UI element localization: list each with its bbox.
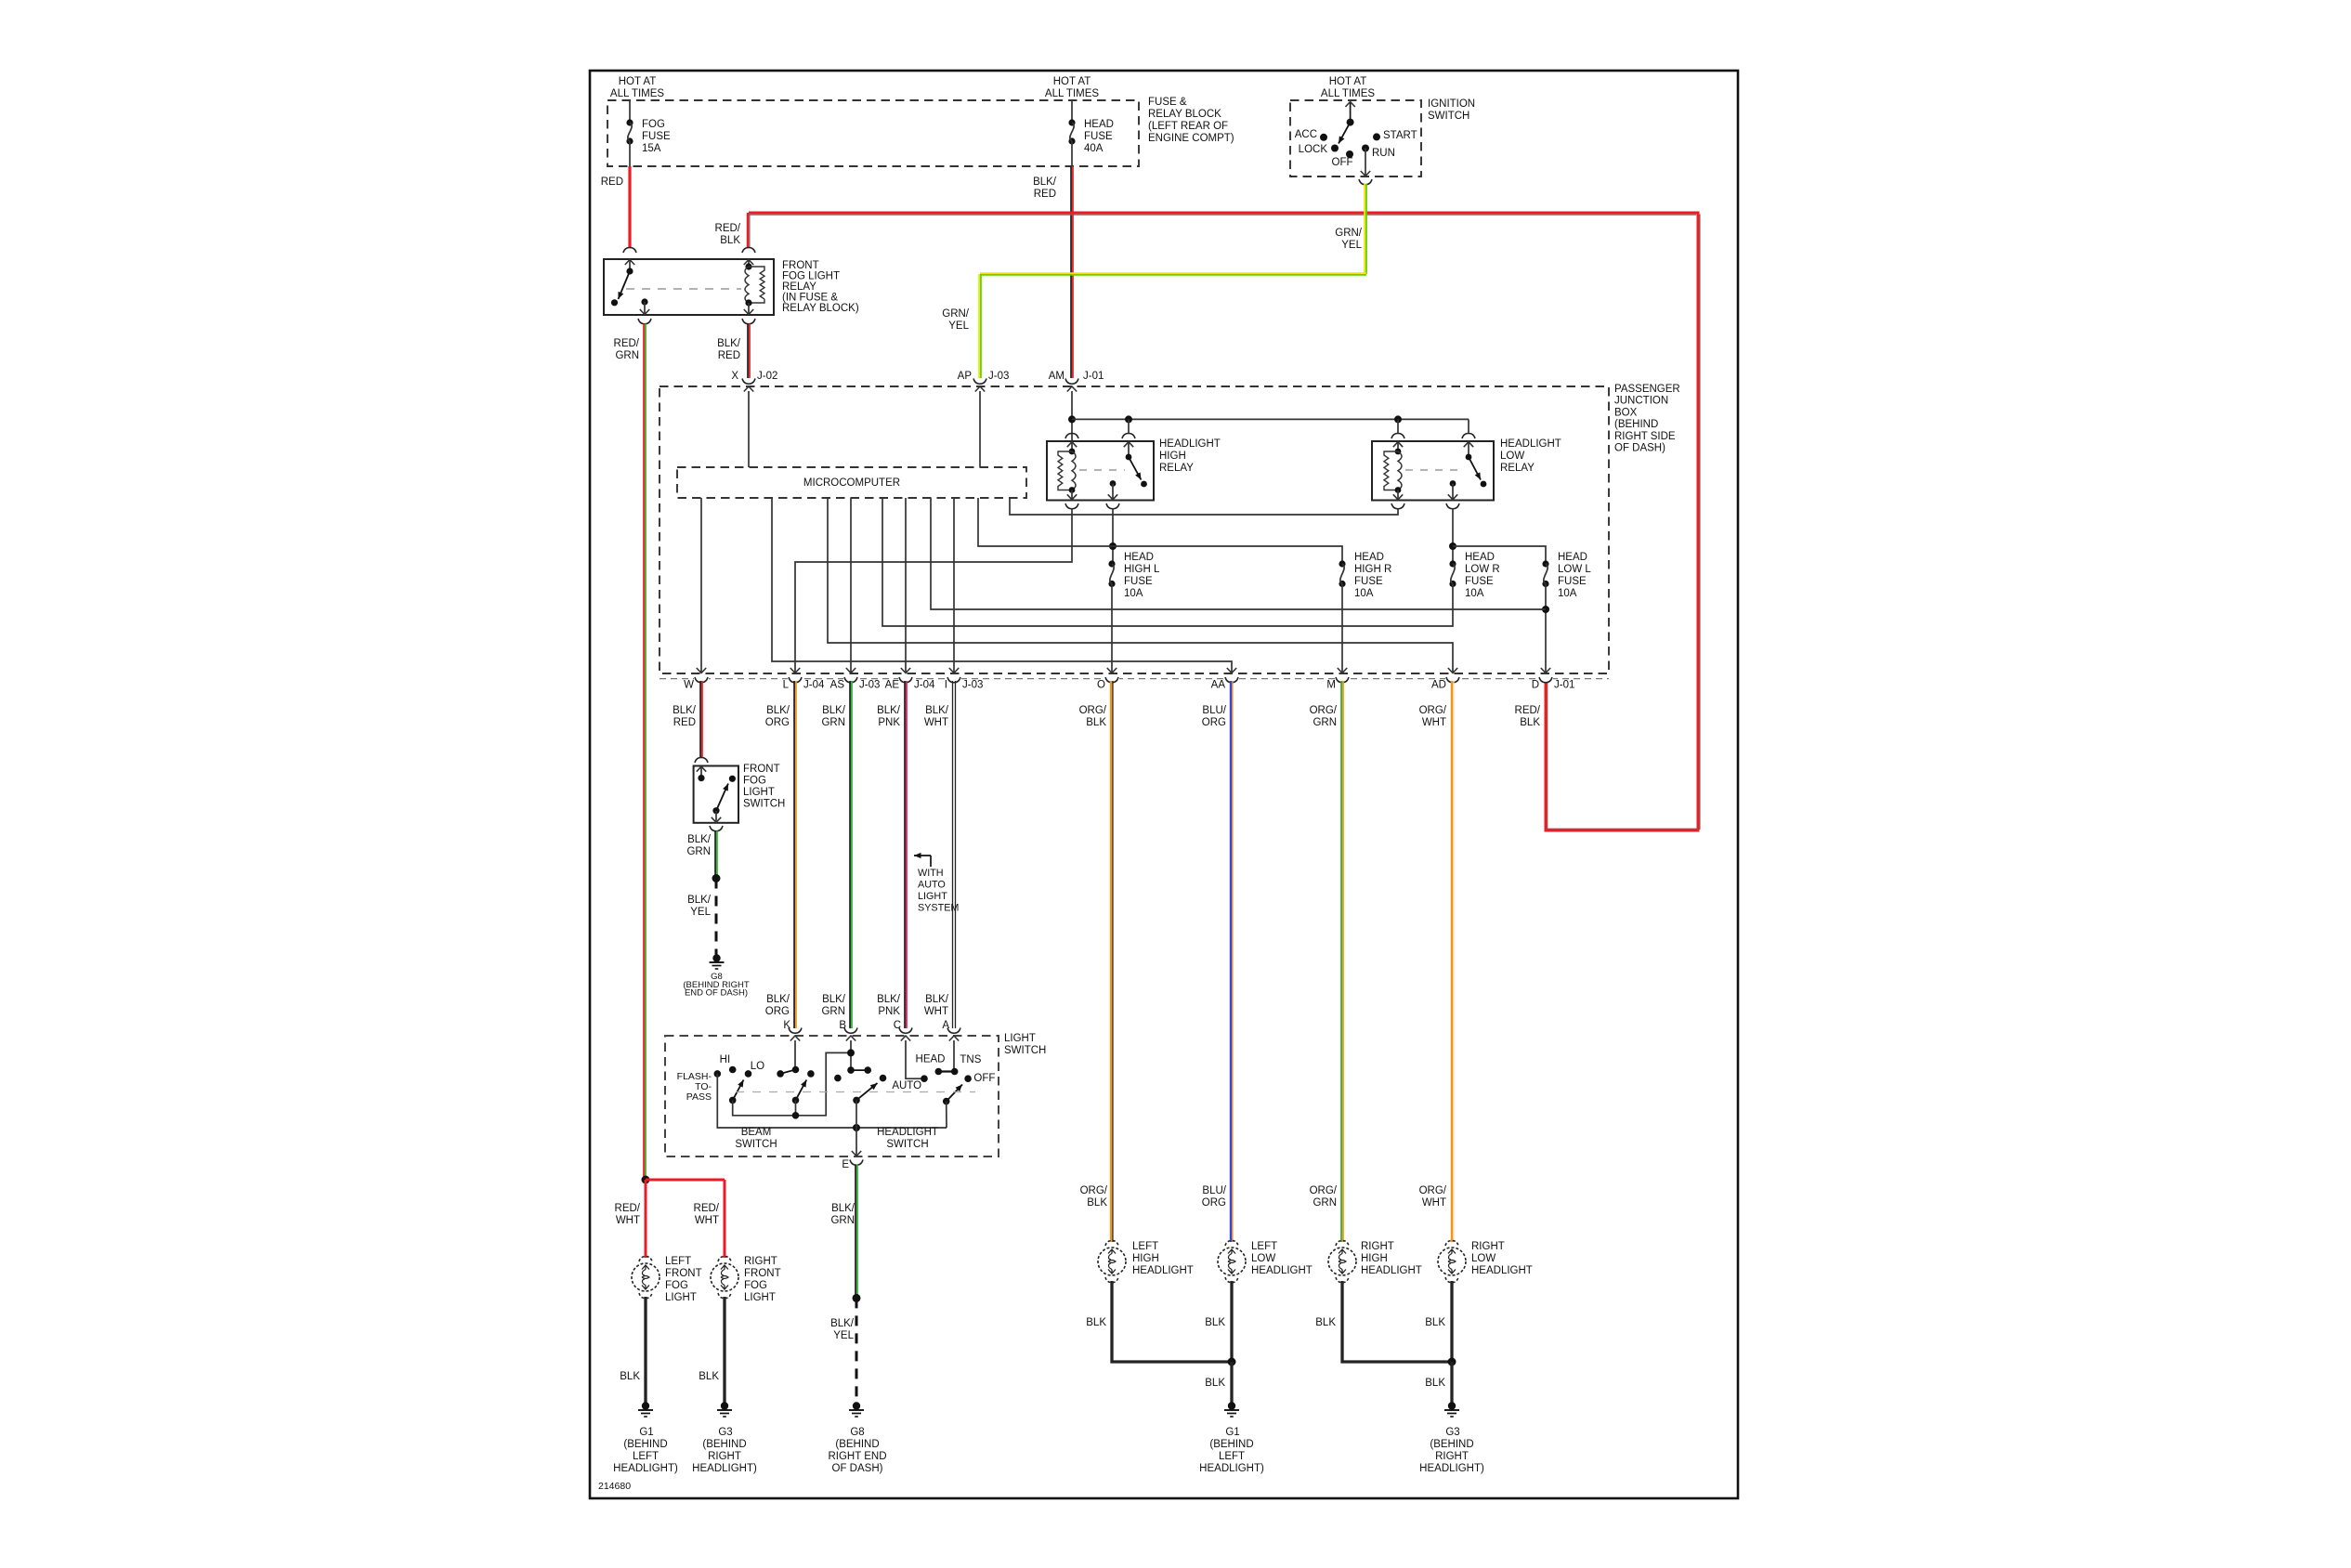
- svg-text:RELAY: RELAY: [1159, 463, 1194, 474]
- svg-text:15A: 15A: [642, 143, 661, 154]
- svg-text:ENGINE COMPT): ENGINE COMPT): [1148, 133, 1234, 144]
- svg-text:HEADLIGHT): HEADLIGHT): [613, 1463, 678, 1474]
- svg-text:214680: 214680: [598, 1481, 631, 1492]
- svg-text:HEAD: HEAD: [1465, 552, 1495, 563]
- wire microcomputer to I: [953, 498, 955, 673]
- svg-text:OFF: OFF: [1332, 157, 1353, 168]
- svg-text:HEADLIGHT: HEADLIGHT: [1132, 1265, 1194, 1276]
- svg-text:ALL TIMES: ALL TIMES: [1045, 88, 1099, 99]
- headlight switch selector 1: [834, 1075, 842, 1082]
- svg-text:BLK/: BLK/: [822, 705, 846, 716]
- svg-text:W: W: [684, 680, 694, 691]
- svg-text:FOG: FOG: [743, 776, 766, 787]
- svg-text:PASS: PASS: [686, 1091, 712, 1103]
- svg-text:40A: 40A: [1084, 143, 1104, 154]
- svg-text:HEADLIGHT): HEADLIGHT): [692, 1463, 757, 1474]
- wire RED/BLK bottom horizontal: [1546, 828, 1698, 830]
- svg-text:10A: 10A: [1465, 588, 1484, 599]
- svg-text:BLK/: BLK/: [925, 705, 949, 716]
- svg-text:RED/: RED/: [1515, 705, 1541, 716]
- svg-text:LOW: LOW: [1471, 1253, 1495, 1264]
- svg-text:HOT AT: HOT AT: [1053, 76, 1091, 87]
- svg-text:ALL TIMES: ALL TIMES: [1321, 88, 1375, 99]
- fog relay switch: [629, 259, 631, 271]
- svg-text:J-01: J-01: [1554, 680, 1574, 691]
- svg-text:BLK: BLK: [720, 235, 740, 246]
- wire BLK/WHT I to A: [952, 681, 954, 1028]
- svg-text:AD: AD: [1431, 680, 1446, 691]
- fuse HEAD LOW L FUSE 10A: [1542, 560, 1548, 567]
- svg-text:RED/: RED/: [615, 1203, 641, 1214]
- svg-text:G1: G1: [1225, 1427, 1239, 1438]
- svg-text:HEADLIGHT): HEADLIGHT): [1419, 1463, 1484, 1474]
- wire BLK to ground G1: [1230, 1362, 1233, 1406]
- pin C: [899, 1028, 912, 1034]
- switch LIGHT SWITCH (dashed box): [665, 1036, 999, 1156]
- svg-text:ORG: ORG: [1202, 717, 1226, 728]
- svg-text:LOCK: LOCK: [1299, 144, 1328, 155]
- svg-text:SWITCH: SWITCH: [743, 799, 785, 810]
- lamp RIGHT FRONT FOG LIGHT: [718, 1257, 731, 1262]
- svg-text:PASSENGER: PASSENGER: [1614, 384, 1680, 395]
- svg-text:BLK: BLK: [1205, 1378, 1225, 1389]
- svg-text:HEAD: HEAD: [1084, 119, 1114, 130]
- svg-text:E: E: [842, 1159, 849, 1170]
- svg-text:BLK/: BLK/: [1033, 176, 1057, 188]
- svg-text:HEAD: HEAD: [916, 1053, 946, 1065]
- pin B: [844, 1028, 857, 1034]
- svg-text:HEADLIGHT: HEADLIGHT: [877, 1127, 938, 1138]
- svg-text:HEADLIGHT: HEADLIGHT: [1159, 438, 1221, 450]
- svg-text:BLK/: BLK/: [687, 834, 712, 845]
- svg-text:SWITCH: SWITCH: [1428, 111, 1469, 122]
- fog relay coil: [748, 259, 750, 267]
- svg-text:BLK: BLK: [1086, 717, 1106, 728]
- ground G1 behind left headlight: [642, 1402, 649, 1409]
- svg-text:HEADLIGHT: HEADLIGHT: [1361, 1265, 1422, 1276]
- ground G3 behind right headlight: [721, 1402, 728, 1409]
- svg-text:RED/: RED/: [715, 223, 741, 234]
- svg-text:ORG: ORG: [765, 1006, 790, 1017]
- wire RED/BLK right vertical: [1699, 215, 1701, 830]
- svg-text:FUSE: FUSE: [1084, 131, 1113, 142]
- svg-text:HIGH: HIGH: [1132, 1253, 1159, 1264]
- svg-text:G3: G3: [1445, 1427, 1459, 1438]
- svg-text:BLK: BLK: [1086, 1317, 1106, 1328]
- fuse FOG FUSE 15A: [629, 100, 631, 123]
- svg-text:BLK: BLK: [1520, 717, 1540, 728]
- fog relay mechanical link: [626, 288, 741, 290]
- ignition switch internals: [1350, 102, 1352, 123]
- wire BLK/PNK AE to C: [904, 681, 906, 1028]
- svg-text:J-04: J-04: [914, 680, 935, 691]
- relay HEADLIGHT HIGH RELAY: [1065, 434, 1078, 439]
- svg-text:RIGHT SIDE: RIGHT SIDE: [1614, 431, 1676, 442]
- svg-text:LOW: LOW: [1251, 1253, 1275, 1264]
- pin I J-03: [947, 677, 960, 683]
- svg-text:ORG/: ORG/: [1310, 1185, 1338, 1196]
- svg-text:BLK/: BLK/: [766, 705, 790, 716]
- beam switch selector 2 contacts: [777, 1070, 784, 1078]
- svg-text:RIGHT: RIGHT: [708, 1451, 741, 1462]
- fuse HEAD HIGH L FUSE 10A: [1108, 560, 1115, 567]
- svg-text:FUSE: FUSE: [1124, 576, 1153, 587]
- svg-text:WITH: WITH: [918, 868, 944, 879]
- svg-text:HIGH R: HIGH R: [1354, 564, 1391, 575]
- pin D J-01: [1539, 677, 1552, 683]
- wire BLK/YEL to ground G8 (lower): [856, 1298, 858, 1405]
- svg-text:RED: RED: [601, 176, 623, 188]
- svg-text:10A: 10A: [1558, 588, 1577, 599]
- svg-text:RELAY BLOCK: RELAY BLOCK: [1148, 109, 1221, 120]
- fuse HEAD HIGH R FUSE 10A: [1339, 560, 1345, 567]
- node LOCK: [1331, 145, 1339, 152]
- wire low relay output to head low fuses: [1452, 508, 1454, 564]
- svg-text:ORG: ORG: [1202, 1197, 1226, 1209]
- wire RED/BLK from D connector down: [1547, 681, 1548, 829]
- svg-text:ACC: ACC: [1295, 129, 1317, 140]
- node splice on E wire: [853, 1294, 861, 1302]
- svg-text:IGNITION: IGNITION: [1428, 98, 1475, 110]
- svg-text:AUTO: AUTO: [918, 879, 946, 890]
- svg-text:OF DASH): OF DASH): [1614, 443, 1665, 454]
- light switch mechanical link: [736, 1091, 975, 1093]
- node splice right headlight grounds: [1448, 1358, 1456, 1366]
- svg-text:G1: G1: [639, 1427, 653, 1438]
- svg-text:HOT AT: HOT AT: [619, 76, 656, 87]
- svg-text:J-03: J-03: [962, 680, 983, 691]
- svg-text:LEFT: LEFT: [665, 1256, 691, 1267]
- node splice RED/GRN to fog lights: [642, 1176, 650, 1184]
- wire BLK/GRN E to splice: [855, 1165, 856, 1299]
- svg-text:FOG: FOG: [665, 1280, 688, 1291]
- wire BLK/ORG L to K: [793, 681, 795, 1028]
- svg-text:ALL TIMES: ALL TIMES: [610, 88, 664, 99]
- pin AM J-01: [1065, 379, 1078, 385]
- svg-text:LOW: LOW: [1500, 451, 1524, 462]
- svg-text:BOX: BOX: [1614, 407, 1638, 418]
- svg-text:FUSE: FUSE: [1465, 576, 1494, 587]
- svg-text:LIGHT: LIGHT: [665, 1292, 697, 1303]
- svg-text:BLK: BLK: [1425, 1317, 1445, 1328]
- pin AD: [1446, 677, 1459, 683]
- svg-text:BLK: BLK: [1425, 1378, 1445, 1389]
- svg-text:YEL: YEL: [690, 907, 711, 918]
- wire BLK right high headlight to splice: [1342, 1281, 1452, 1362]
- svg-text:L: L: [783, 680, 790, 691]
- svg-text:OFF: OFF: [973, 1073, 995, 1084]
- wire RED/WHT jumper to right fog light: [646, 1179, 725, 1182]
- svg-text:HIGH: HIGH: [1361, 1253, 1388, 1264]
- svg-text:WHT: WHT: [695, 1215, 719, 1226]
- svg-text:RED: RED: [1034, 189, 1056, 200]
- wire low R fuse to microcomputer: [882, 498, 1453, 626]
- svg-text:ORG: ORG: [765, 717, 790, 728]
- svg-text:YEL: YEL: [1341, 240, 1362, 251]
- pin L J-04: [789, 677, 802, 683]
- svg-text:J-03: J-03: [988, 371, 1009, 382]
- wire microcomputer to AD: [828, 498, 1453, 673]
- svg-text:(BEHIND: (BEHIND: [1209, 1439, 1253, 1450]
- svg-text:AS: AS: [830, 680, 845, 691]
- svg-text:(BEHIND: (BEHIND: [623, 1439, 667, 1450]
- high relay resistor: [1058, 451, 1072, 490]
- wire BLK/GRN AS to B: [849, 681, 851, 1028]
- junction bottom connector gaps: [694, 676, 709, 683]
- wire GRN/YEL from ignition switch to AP: [1364, 184, 1365, 274]
- passenger junction box (dashed): [660, 386, 1609, 673]
- svg-text:BLK/: BLK/: [877, 705, 901, 716]
- low relay resistor: [1384, 451, 1398, 490]
- switch FRONT FOG LIGHT SWITCH: [695, 758, 708, 764]
- node RUN: [1362, 145, 1369, 152]
- svg-text:ORG/: ORG/: [1419, 1185, 1447, 1196]
- svg-text:J-03: J-03: [859, 680, 880, 691]
- svg-text:HEAD: HEAD: [1124, 552, 1154, 563]
- svg-text:BLU/: BLU/: [1202, 705, 1226, 716]
- svg-text:BLK: BLK: [1315, 1317, 1336, 1328]
- wire RED/BLK battery feed (top horizontal): [749, 214, 1696, 216]
- svg-text:MICROCOMPUTER: MICROCOMPUTER: [803, 477, 900, 489]
- svg-text:FUSE: FUSE: [642, 131, 671, 142]
- wire microcomputer to AS: [850, 498, 852, 673]
- wire BLK/YEL to ground G8: [715, 879, 718, 955]
- svg-text:HI: HI: [720, 1054, 731, 1065]
- svg-text:SWITCH: SWITCH: [1004, 1045, 1046, 1056]
- svg-text:AP: AP: [958, 371, 973, 382]
- wire relay supply bus from AM: [1068, 415, 1076, 423]
- ground G8 behind right end of dash (lower): [853, 1402, 860, 1409]
- svg-text:HEADLIGHT: HEADLIGHT: [1251, 1265, 1313, 1276]
- svg-text:(BEHIND: (BEHIND: [1614, 419, 1658, 430]
- wire BLK/RED from head fuse to AM: [1070, 166, 1072, 378]
- svg-text:YEL: YEL: [833, 1330, 854, 1341]
- svg-text:LEFT: LEFT: [1219, 1451, 1245, 1462]
- pin O: [1105, 677, 1118, 683]
- wire microcomputer to AE: [905, 498, 907, 673]
- svg-text:RED/: RED/: [614, 338, 640, 349]
- pin AP J-03: [973, 379, 986, 385]
- svg-text:FOG: FOG: [642, 119, 665, 130]
- svg-text:PNK: PNK: [878, 717, 900, 728]
- note WITH AUTO LIGHT SYSTEM: [914, 855, 931, 856]
- svg-text:RIGHT: RIGHT: [1435, 1451, 1469, 1462]
- svg-text:M: M: [1326, 680, 1336, 691]
- svg-text:O: O: [1097, 680, 1105, 691]
- svg-text:B: B: [839, 1020, 846, 1031]
- wire high relay output to head high fuses: [1112, 508, 1114, 564]
- svg-text:SYSTEM: SYSTEM: [918, 903, 959, 914]
- wire high relay coil return to L: [795, 508, 1072, 673]
- svg-text:FRONT: FRONT: [665, 1268, 702, 1279]
- svg-text:LOW L: LOW L: [1558, 564, 1591, 575]
- svg-text:K: K: [783, 1020, 790, 1031]
- wire RED/BLK drop to fog relay: [747, 213, 750, 247]
- svg-text:RIGHT: RIGHT: [1361, 1241, 1394, 1252]
- svg-text:J-04: J-04: [803, 680, 825, 691]
- svg-text:BEAM: BEAM: [741, 1127, 772, 1138]
- svg-text:10A: 10A: [1124, 588, 1143, 599]
- ground G8 behind right end of dash: [712, 954, 720, 961]
- svg-text:BLK/: BLK/: [717, 338, 741, 349]
- wire microcomputer to AA: [772, 498, 1232, 673]
- svg-text:HOT AT: HOT AT: [1329, 76, 1366, 87]
- svg-text:RIGHT END: RIGHT END: [828, 1451, 886, 1462]
- lamp RIGHT HIGH HEADLIGHT: [1336, 1241, 1349, 1247]
- svg-text:LIGHT: LIGHT: [1004, 1033, 1036, 1044]
- svg-text:A: A: [942, 1020, 949, 1031]
- wire BLK right fog to ground: [723, 1297, 725, 1406]
- border frame: [590, 71, 1738, 1498]
- svg-text:RIGHT: RIGHT: [1471, 1241, 1505, 1252]
- svg-text:ORG/: ORG/: [1080, 1185, 1108, 1196]
- svg-text:(IN FUSE &: (IN FUSE &: [782, 293, 838, 304]
- svg-text:WHT: WHT: [924, 717, 948, 728]
- wire BLK right low headlight to splice: [1450, 1281, 1453, 1362]
- svg-text:AE: AE: [885, 680, 900, 691]
- low relay switch: [1468, 441, 1469, 457]
- svg-text:ORG/: ORG/: [1419, 705, 1447, 716]
- svg-text:BLK/: BLK/: [830, 1318, 855, 1329]
- pin X J-02: [742, 379, 755, 385]
- svg-text:PNK: PNK: [878, 1006, 900, 1017]
- svg-text:BLK/: BLK/: [831, 1203, 856, 1214]
- svg-text:G8: G8: [850, 1427, 864, 1438]
- wire BLU/ORG AA to left low headlight: [1230, 681, 1233, 1242]
- pin M: [1336, 677, 1349, 683]
- wire beam switch commons to B: [733, 1052, 851, 1115]
- svg-text:SWITCH: SWITCH: [735, 1139, 777, 1150]
- high relay switch: [1128, 441, 1130, 457]
- relay FRONT FOG LIGHT RELAY: [623, 248, 636, 254]
- svg-text:RIGHT: RIGHT: [744, 1256, 777, 1267]
- svg-text:HEAD: HEAD: [1354, 552, 1384, 563]
- wire head high L fuse to O: [1111, 584, 1113, 673]
- svg-text:I: I: [945, 680, 947, 691]
- microcomputer box: [677, 467, 1026, 498]
- svg-text:BLK: BLK: [620, 1371, 640, 1382]
- node START: [1373, 133, 1380, 140]
- node ACC: [1320, 134, 1327, 141]
- wire low L fuse to D with microcomputer tap: [1545, 584, 1547, 673]
- wire BLK left high headlight to splice: [1112, 1281, 1232, 1362]
- svg-text:FOG: FOG: [744, 1280, 767, 1291]
- svg-text:YEL: YEL: [948, 320, 969, 332]
- svg-text:BLK: BLK: [699, 1371, 719, 1382]
- fuse HEAD FUSE 40A: [1071, 100, 1073, 123]
- svg-text:GRN/: GRN/: [942, 308, 970, 320]
- wire RED/WHT to right front fog light: [724, 1180, 726, 1258]
- svg-text:BLK/: BLK/: [925, 994, 949, 1005]
- svg-text:LOW R: LOW R: [1465, 564, 1500, 575]
- svg-text:GRN: GRN: [1313, 1197, 1337, 1209]
- svg-text:FRONT: FRONT: [782, 260, 819, 271]
- svg-text:HEADLIGHT: HEADLIGHT: [1500, 438, 1561, 450]
- svg-text:HEADLIGHT: HEADLIGHT: [1471, 1265, 1533, 1276]
- svg-text:(BEHIND: (BEHIND: [835, 1439, 879, 1450]
- svg-text:X: X: [731, 371, 738, 382]
- wire microcomputer to W: [700, 498, 702, 673]
- svg-text:FUSE: FUSE: [1354, 576, 1383, 587]
- svg-text:TNS: TNS: [960, 1054, 981, 1065]
- svg-text:RELAY: RELAY: [1500, 463, 1535, 474]
- svg-text:AUTO: AUTO: [892, 1080, 921, 1091]
- svg-text:WHT: WHT: [616, 1215, 640, 1226]
- svg-text:RELAY BLOCK): RELAY BLOCK): [782, 303, 859, 314]
- wire BLK/RED W to fog switch: [699, 681, 701, 757]
- fog relay resistor: [749, 267, 764, 303]
- svg-text:GRN: GRN: [830, 1215, 855, 1226]
- svg-text:RED: RED: [673, 717, 696, 728]
- pin K: [789, 1028, 802, 1034]
- svg-text:BLK/: BLK/: [673, 705, 697, 716]
- svg-text:HEADLIGHT): HEADLIGHT): [1199, 1463, 1264, 1474]
- pin AA: [1225, 677, 1238, 683]
- svg-text:GRN: GRN: [615, 350, 639, 361]
- fuse and relay block (dashed): [607, 100, 1139, 166]
- wire BLK/GRN fog switch output: [714, 831, 716, 879]
- svg-text:LIGHT: LIGHT: [744, 1292, 776, 1303]
- svg-text:J-02: J-02: [757, 371, 777, 382]
- svg-text:D: D: [1532, 680, 1539, 691]
- wire flash contact to common bus: [717, 1074, 947, 1128]
- pin AS J-03: [844, 677, 857, 683]
- svg-text:RUN: RUN: [1372, 148, 1395, 159]
- node splice left headlight grounds: [1228, 1358, 1236, 1366]
- svg-text:BLK: BLK: [1087, 1197, 1107, 1209]
- wire BLK/RED fog relay coil to X: [747, 324, 749, 379]
- svg-text:C: C: [894, 1020, 901, 1031]
- wire BLK to ground G3: [1450, 1362, 1453, 1406]
- wire ORG/WHT AD to right low headlight: [1451, 681, 1454, 1242]
- svg-text:FUSE &: FUSE &: [1148, 97, 1187, 108]
- svg-text:WHT: WHT: [1422, 1197, 1446, 1209]
- svg-text:AA: AA: [1211, 680, 1226, 691]
- lamp LEFT LOW HEADLIGHT: [1225, 1241, 1238, 1247]
- node OFF: [1346, 150, 1353, 158]
- pin A: [947, 1028, 960, 1034]
- svg-text:(LEFT REAR OF: (LEFT REAR OF: [1148, 121, 1228, 132]
- svg-text:LIGHT: LIGHT: [743, 787, 775, 798]
- svg-text:JUNCTION: JUNCTION: [1614, 396, 1668, 407]
- pin E: [856, 1128, 857, 1156]
- svg-text:FOG LIGHT: FOG LIGHT: [782, 271, 840, 282]
- wire ORG/BLK O to left high headlight: [1110, 681, 1112, 1242]
- node splice below fog switch: [712, 874, 721, 882]
- svg-text:BLK/: BLK/: [687, 895, 712, 906]
- beam switch common 1 and blade: [729, 1097, 737, 1104]
- wire RED/WHT to left front fog light: [645, 1180, 647, 1258]
- wire low relay coil drive from microcomputer: [1010, 498, 1398, 515]
- svg-text:LIGHT: LIGHT: [918, 891, 947, 902]
- svg-text:GRN/: GRN/: [1335, 228, 1363, 239]
- svg-text:END OF DASH): END OF DASH): [685, 988, 748, 999]
- svg-text:FRONT: FRONT: [743, 764, 780, 775]
- svg-text:(BEHIND: (BEHIND: [702, 1439, 746, 1450]
- svg-text:START: START: [1383, 130, 1417, 141]
- svg-text:RED/: RED/: [694, 1203, 720, 1214]
- svg-text:GRN: GRN: [821, 1006, 845, 1017]
- svg-text:10A: 10A: [1354, 588, 1374, 599]
- beam switch common 2 and blade: [792, 1097, 800, 1104]
- wire BLK left fog to ground: [644, 1297, 647, 1406]
- wire ORG/GRN M to right high headlight: [1340, 681, 1342, 1242]
- svg-text:LEFT: LEFT: [1132, 1241, 1158, 1252]
- svg-text:HIGH L: HIGH L: [1124, 564, 1160, 575]
- svg-text:BLK/: BLK/: [766, 994, 790, 1005]
- lamp LEFT HIGH HEADLIGHT: [1105, 1241, 1118, 1247]
- pin W: [695, 677, 708, 683]
